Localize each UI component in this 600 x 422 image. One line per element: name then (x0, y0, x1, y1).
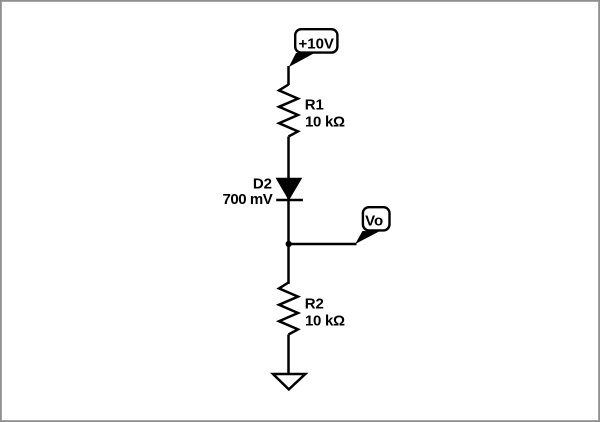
svg-text:Vo: Vo (365, 213, 383, 230)
svg-text:R2: R2 (305, 296, 324, 313)
svg-text:+10V: +10V (298, 35, 333, 52)
svg-text:D2: D2 (253, 175, 272, 192)
svg-text:10 kΩ: 10 kΩ (305, 113, 345, 130)
svg-text:R1: R1 (305, 96, 324, 113)
svg-text:700 mV: 700 mV (222, 191, 272, 208)
svg-text:10 kΩ: 10 kΩ (305, 313, 345, 330)
